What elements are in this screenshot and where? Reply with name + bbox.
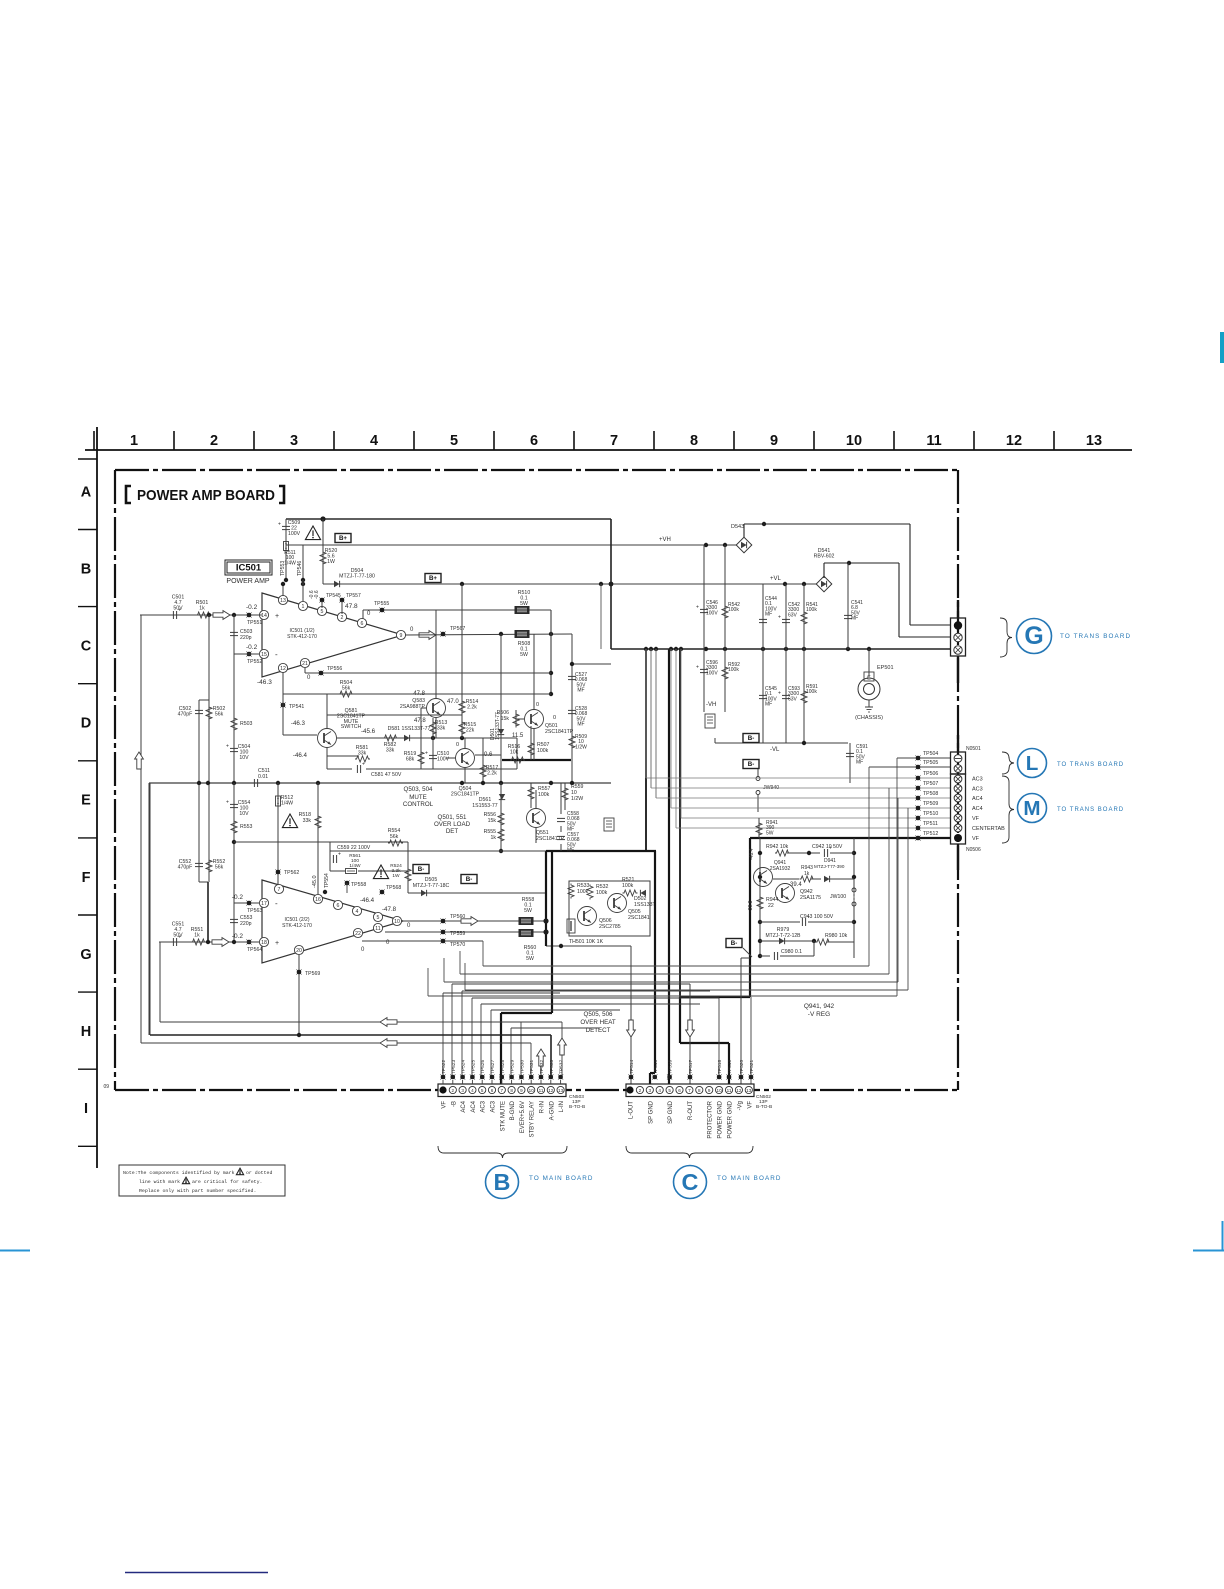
resistor R556 [498,812,504,827]
svg-text:22: 22 [355,931,361,937]
blue corner mark right [1222,1221,1224,1251]
svg-text:6: 6 [491,1088,494,1093]
svg-text:MF: MF [765,702,772,708]
wire R554 row [330,841,408,843]
svg-text:MTZJ-T-77-18C: MTZJ-T-77-18C [413,883,450,889]
svg-text:-45.0: -45.0 [312,875,318,888]
node junction R501-out [207,613,211,617]
capacitor C510 [432,738,434,769]
svg-text:-0.2: -0.2 [232,894,244,901]
wire C559 top row [330,850,408,852]
svg-text:-48.4: -48.4 [749,848,755,860]
transistor Q551 [527,809,546,828]
wire C feed TP519 [728,1042,730,1044]
wire return L-IN [140,615,142,1043]
resistor R553 [231,820,237,835]
wire TP506 row AC3 [646,777,951,779]
svg-text:C581 47 50V: C581 47 50V [371,772,402,778]
svg-text:0.01: 0.01 [258,774,268,780]
svg-text:TP564: TP564 [247,947,262,953]
svg-text:11.5: 11.5 [512,733,524,739]
test point TP545 [320,598,325,603]
svg-text:TP528: TP528 [500,1060,506,1074]
svg-text:-46.4: -46.4 [293,752,308,759]
svg-text:TP567: TP567 [450,626,465,632]
svg-text:7: 7 [688,1088,691,1093]
circle C [674,1166,707,1199]
svg-text:10: 10 [846,433,862,449]
svg-text:3: 3 [461,1088,464,1093]
capacitor C546 [703,545,705,649]
wire +VH rail [286,544,744,546]
svg-text:VF: VF [972,816,980,822]
svg-text:TP546: TP546 [297,561,303,576]
test points TP514-TP521 [629,1075,634,1080]
svg-text:AC3: AC3 [972,787,983,793]
svg-text:TP517: TP517 [688,1060,694,1074]
svg-text:-V REG: -V REG [808,1011,830,1018]
svg-text:R980 10k: R980 10k [825,933,848,939]
op-amp U2 pin 4 [352,906,361,915]
wire sweep 5 [427,968,429,996]
svg-text:TP552: TP552 [247,659,262,665]
svg-text:+: + [275,940,279,947]
resistor R558 0.1 5W [519,917,534,925]
diode bridge D543 [736,537,752,553]
svg-text:0: 0 [367,611,371,617]
svg-text:TO TRANS BOARD: TO TRANS BOARD [1057,807,1124,813]
svg-text:TP554: TP554 [324,873,330,888]
wire bold bundle x669 upper [668,649,670,851]
svg-text:B-: B- [748,761,755,768]
resistor R510 emitter 0.1 5W [515,606,530,614]
svg-text:33k: 33k [437,725,446,731]
svg-text:TP520: TP520 [739,1060,745,1074]
op-amp U2 pin 18 [259,937,268,946]
signal arrow U2 out [461,917,478,926]
svg-text:1/2W: 1/2W [571,796,583,802]
svg-text:+: + [696,665,699,671]
test point TP564 [247,940,252,945]
svg-text:STK MUTE: STK MUTE [500,1101,506,1131]
diode bridge D541 [816,576,832,592]
svg-text:100V: 100V [706,670,718,676]
wire Q551 stems [535,790,537,808]
svg-text:TP556: TP556 [327,666,342,672]
svg-text:TP518: TP518 [717,1060,723,1074]
svg-text:1SS133T: 1SS133T [634,902,656,908]
svg-text:-VH: -VH [706,702,716,708]
svg-text:+VH: +VH [659,537,671,543]
svg-text:B+: B+ [429,575,437,582]
svg-text:MTZJ-T77-390: MTZJ-T77-390 [814,864,845,869]
svg-text:50V: 50V [173,932,183,938]
signal arrow return 2 [380,1039,397,1048]
svg-text:TH501 10K 1K: TH501 10K 1K [569,939,604,945]
svg-text:-0.6: -0.6 [314,590,320,599]
svg-text:MF: MF [577,688,584,694]
diode D502 [640,890,646,896]
wire B feed TP524 [461,991,463,1077]
resistor R506 [515,710,517,726]
svg-text:STBY RELAY: STBY RELAY [530,1101,536,1137]
op-amp U2 pin 16 [313,894,322,903]
arrow down TP514 [627,1020,636,1037]
IC501 label box [225,560,272,575]
svg-text:B: B [81,562,91,578]
svg-text:12: 12 [736,1088,742,1093]
op-amp U2 pin 7 [274,884,283,893]
svg-text:C: C [682,1169,699,1195]
op-amp U1 pin 21 [300,658,309,667]
wire C502 branch [208,615,210,700]
svg-text:TO TRANS BOARD: TO TRANS BOARD [1057,762,1124,768]
wire bold x611 [610,519,612,649]
svg-text:220p: 220p [240,921,252,927]
wire R504 feedback row [282,672,284,694]
svg-text:TP514: TP514 [629,1060,635,1074]
svg-text:100V: 100V [706,610,718,616]
svg-text:are critical for safety.: are critical for safety. [192,1179,262,1185]
node C555 branch [232,840,236,844]
transistor Q505 [608,894,627,913]
svg-text:TP505: TP505 [923,760,938,766]
boxed B- label 3 [743,734,759,743]
svg-text:-B: -B [451,1101,457,1107]
svg-text:(CHASSIS): (CHASSIS) [855,715,883,721]
svg-text:B-GND: B-GND [510,1100,516,1120]
arrow up feedback [135,752,144,769]
resistor R520 [322,519,324,584]
test point TP569 [298,955,300,1035]
capacitor C541 [847,563,849,649]
op-amp U2 pin 6b [333,900,342,909]
svg-text:TP553: TP553 [280,561,286,576]
svg-text:-0.2: -0.2 [246,644,258,651]
resistor R591 [803,649,805,743]
svg-text:AC4: AC4 [461,1100,467,1112]
wire overheat out [546,945,631,947]
signal arrow ch1 input [213,611,230,620]
svg-text:68k: 68k [406,756,415,762]
svg-text:SWITCH: SWITCH [341,724,362,730]
warning mark R524 [373,865,388,879]
op-amp U2 pin 11 [373,923,382,932]
svg-text:Q501, 551: Q501, 551 [438,814,467,821]
resistor R513 [432,718,434,738]
svg-text:2SA988TP: 2SA988TP [400,704,426,710]
svg-text:20: 20 [296,948,302,954]
test point TP555 [380,608,385,613]
svg-text:+: + [696,605,699,611]
svg-text:56k: 56k [215,865,224,871]
svg-text:H: H [81,1024,91,1040]
svg-text:JW100: JW100 [830,894,846,900]
svg-text:STK-412-170: STK-412-170 [287,634,317,640]
svg-text:OVER LOAD: OVER LOAD [434,821,471,828]
capacitor C596 [703,649,705,712]
svg-text:MF: MF [567,848,574,854]
svg-text:56k: 56k [390,834,399,840]
svg-text:0: 0 [536,702,539,708]
svg-text:47.0: 47.0 [447,699,459,705]
transistor Q501 [525,710,544,729]
resistor R541 [803,584,805,649]
svg-text:MF: MF [765,612,772,618]
svg-text:9: 9 [400,633,403,639]
left ruler line [96,427,98,1168]
connector CN502 pins [626,1086,633,1093]
svg-text:6: 6 [530,433,538,449]
svg-text:100k: 100k [596,890,608,896]
svg-text:10V: 10V [239,811,249,817]
svg-text:2: 2 [210,433,218,449]
transistor Q506 [578,907,597,926]
-VREG box right wire [853,838,855,958]
svg-text:TP530: TP530 [519,1060,525,1074]
circle L [1018,749,1047,778]
test point TP541 [281,703,286,708]
arrow down TP517 [686,1020,695,1037]
svg-text:TP558: TP558 [351,882,366,888]
svg-text:100k: 100k [806,689,817,695]
connector L pin x [954,765,962,773]
capacitor C593 [785,649,787,743]
title POWER AMP BOARD [126,486,131,503]
wire Q581 collector emitter [326,715,328,728]
svg-text:B-: B- [748,735,755,742]
svg-text:MF: MF [577,722,584,728]
resistor R555 [498,828,504,843]
wire sweep 4 [464,963,466,990]
ground chassis EP501 [868,700,870,707]
svg-text:Replace only with part number: Replace only with part number specified. [139,1188,256,1194]
svg-text:AC4: AC4 [972,796,983,802]
resistor R941 [758,818,760,838]
capacitor C551 [172,938,174,946]
thermistor TH501 [567,919,575,933]
capacitor C511 [253,779,255,787]
wire C feed TP521 [750,997,752,1090]
svg-text:470pF: 470pF [178,865,193,871]
svg-text:I: I [84,1101,88,1117]
test points TP522-TP537 [441,1075,446,1080]
svg-text:MF: MF [851,616,858,622]
capacitor C557 [557,835,565,837]
svg-text:47.8: 47.8 [414,718,426,724]
svg-text:+: + [275,613,279,620]
svg-text:-46.3: -46.3 [257,679,272,686]
transistor Q941 [754,868,773,887]
brace for G [1000,618,1012,657]
svg-text:B-TO-B: B-TO-B [756,1104,772,1110]
svg-text:16: 16 [315,897,321,903]
wire U2 out TP559 [385,931,546,933]
jumper JW940 [757,769,759,776]
svg-text:TP551: TP551 [247,620,262,626]
svg-text:5W: 5W [520,601,528,607]
svg-text:63V: 63V [788,612,798,618]
signal arrow U1 out [419,631,436,640]
svg-text:+VL: +VL [770,576,782,582]
wire return bold A-GND [149,783,151,1035]
navy line bottom [125,1572,268,1574]
resistor R501 [196,612,211,618]
diode D501 vertical [500,634,502,783]
svg-text:22k: 22k [466,727,475,733]
diode D561 vertical [499,794,505,800]
fuse icon -VH [705,714,715,728]
svg-text:TP563: TP563 [247,908,262,914]
svg-text:+: + [226,744,229,750]
svg-text:TO MAIN BOARD: TO MAIN BOARD [717,1175,782,1182]
op-amp U1 triangle IC501 1/2 [262,593,403,677]
svg-text:5: 5 [481,1088,484,1093]
svg-text:8: 8 [698,1088,701,1093]
wire B feed TP530 [520,1022,522,1077]
svg-text:SP GND: SP GND [648,1100,654,1124]
test point TP568 [380,890,385,895]
capacitor C528 [568,709,576,711]
svg-text:B+: B+ [339,535,347,542]
svg-text:7: 7 [610,433,618,449]
svg-text:TP570: TP570 [450,942,465,948]
resistor R532 [587,885,593,900]
svg-text:-45.6: -45.6 [361,728,376,735]
svg-text:+: + [425,751,428,757]
wire bold jog to STK MUTE pin [501,1012,552,1014]
svg-text:TP559: TP559 [450,931,465,937]
wire Q583 base link [421,707,426,709]
wire sweep 1 [482,941,484,966]
op-amp U2 pin 22 [353,928,362,937]
warning mark D row [282,814,297,828]
svg-text:POWER GND: POWER GND [728,1100,734,1138]
test point TP567 [441,632,446,637]
svg-text:9: 9 [520,1088,523,1093]
svg-text:47.8: 47.8 [345,603,358,610]
wire return R-IN [159,942,161,1022]
svg-text:5: 5 [377,915,380,921]
wire sweep 3 [443,958,445,982]
svg-text:2SC1841TP: 2SC1841TP [545,729,574,735]
boxed B- label 2 [461,875,477,884]
svg-text:33k: 33k [358,750,367,756]
diode D504 [334,581,340,587]
svg-text:TP562: TP562 [284,870,299,876]
svg-text:100k: 100k [622,883,634,889]
wire TP505 row [869,766,951,768]
brace for M [1002,776,1014,843]
wire D543 top link [743,524,745,537]
connector CN503 pins [439,1086,446,1093]
svg-text:5: 5 [321,609,324,615]
op-amp U1 pin 14 [259,610,268,619]
svg-text:TP504: TP504 [923,751,938,757]
capacitor C509 [285,519,287,545]
svg-text:TP516: TP516 [668,1060,674,1074]
connector CN502 box [626,1084,754,1097]
svg-text:TP537: TP537 [559,1060,565,1074]
test point TP560 [441,919,446,924]
test point TP558 [345,881,350,886]
svg-text:TP508: TP508 [923,791,938,797]
op-amp U1 pin 12 [278,663,287,672]
wire B feed TP523 [451,984,453,1077]
B+ box upper [335,534,351,543]
svg-text:TP545: TP545 [326,593,341,599]
test point TP552 [247,652,252,657]
svg-text:5W: 5W [524,908,532,914]
wire Q583 emitter stem [435,718,437,738]
svg-text:0: 0 [410,627,414,633]
wire y851 thin extension [408,850,546,852]
svg-text:-38.8: -38.8 [748,900,754,912]
wire Q501 emitter stem [533,729,535,760]
wire TP508 row AC4 [656,797,951,799]
node junctions rail y649 [644,647,648,651]
svg-text:15: 15 [261,652,267,658]
svg-text:DET: DET [446,828,459,835]
svg-text:-0.2: -0.2 [246,604,258,611]
resistor R582 [383,735,398,741]
op-amp U2 pin 17 [259,898,268,907]
resistor R944 [757,896,763,911]
svg-text:0: 0 [553,715,556,721]
connector L box [957,735,959,752]
wire TP512 row VF bold [750,837,951,839]
svg-text:56k: 56k [342,686,351,692]
wire bold bundle x646 [645,649,647,852]
connector G box [957,600,959,618]
wire G pin2 link [899,636,951,638]
wire x462 rail [461,584,463,738]
wire B feed TP526 [480,1004,482,1077]
wire left bus drop [148,783,150,1035]
svg-text:2SC1841: 2SC1841 [628,915,650,921]
svg-text:C: C [81,639,92,655]
svg-text:Note:The components identified: Note:The components identified by mark [123,1170,235,1176]
capacitor C503 [233,615,235,783]
node TP556 junction [549,671,553,675]
capacitor C504 [230,747,238,749]
resistor R518 [317,783,319,895]
teal edge bar right [1220,332,1224,363]
wire U2 out TP560 [403,920,546,922]
resistor R554 [388,840,403,846]
resistor R504 [339,691,354,697]
svg-text:2SA1932: 2SA1932 [770,866,791,872]
svg-text:11: 11 [375,926,380,932]
wire input left rail [140,614,262,616]
capacitor C554 [233,783,235,942]
wire TP555 row [363,609,551,611]
svg-text:TP569: TP569 [305,971,320,977]
wire Q551 base [501,817,526,819]
svg-text:18: 18 [261,940,267,946]
svg-text:100k: 100k [538,792,550,798]
node junction ch2 [206,940,210,944]
capacitor C552 [195,862,203,864]
svg-text:2.2k: 2.2k [467,704,477,710]
svg-text:10k: 10k [510,749,519,755]
test point TP559 [441,930,446,935]
svg-text:N0506: N0506 [966,847,981,853]
svg-text:13: 13 [746,1088,752,1093]
svg-text:TP533: TP533 [549,1060,555,1074]
svg-text:or dotted: or dotted [246,1170,272,1176]
svg-text:TP541: TP541 [289,704,304,710]
